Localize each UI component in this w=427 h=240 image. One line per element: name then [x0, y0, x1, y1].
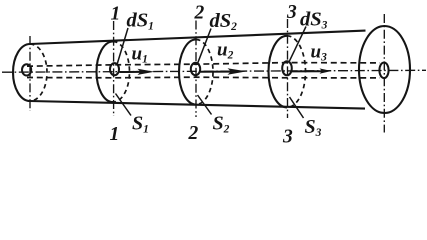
elementary area dS3 (small ellipse) — [282, 61, 292, 75]
right cap vertical dash-dot axis — [383, 14, 385, 133]
right elementary area (small ellipse) — [379, 63, 388, 79]
right end cap rim (full ellipse) — [359, 26, 410, 113]
velocity arrow u2 head — [228, 68, 247, 75]
velocity arrow u1 head — [138, 69, 155, 75]
section 1-1 visible arc (solid left half) — [97, 42, 114, 103]
section 3-3 visible arc (solid left half) — [269, 36, 287, 108]
svg-text:3: 3 — [282, 127, 293, 145]
velocity arrow u2 shaft — [201, 71, 232, 73]
svg-text:1: 1 — [111, 4, 121, 25]
svg-text:3: 3 — [286, 2, 297, 23]
section 1-1 hidden arc (dashed right half) — [113, 42, 130, 103]
axis centerline (horizontal dash-dot) — [2, 70, 426, 72]
velocity arrow u3 shaft — [292, 70, 322, 72]
elementary area dS2 (small ellipse) — [191, 63, 200, 75]
leader line to dS2 — [198, 29, 211, 63]
section 2-2 hidden arc (dashed right half) — [196, 40, 213, 105]
svg-text:2: 2 — [188, 123, 199, 144]
svg-text:1: 1 — [110, 124, 120, 144]
tube top outline — [30, 31, 366, 44]
tube bottom outline — [30, 101, 365, 109]
velocity arrow u1 shaft — [120, 71, 142, 73]
svg-text:2: 2 — [194, 3, 205, 24]
elementary stream tube top wall (dashed) — [27, 63, 380, 67]
leader line to dS3 — [289, 27, 306, 62]
left elementary area dS (small ellipse) — [22, 64, 31, 75]
section 2-2 vertical dash-dot axis — [195, 21, 197, 118]
leader line to S1 — [116, 94, 132, 116]
left end cap visible rim (solid left half) — [13, 44, 30, 101]
section 3-3 hidden arc (dashed right half) — [287, 36, 305, 108]
section 3-3 vertical dash-dot axis — [287, 19, 289, 118]
section 1-1 vertical dash-dot axis — [113, 21, 115, 116]
leader line to dS1 — [117, 28, 128, 64]
left end cap hidden rim (dashed right half) — [30, 44, 47, 101]
elementary area dS1 (small ellipse) — [110, 63, 119, 75]
left cap vertical dash-dot axis — [29, 36, 31, 111]
leader line to S3 — [290, 97, 304, 118]
leader line to S2 — [198, 95, 212, 115]
section 2-2 visible arc (solid left half) — [179, 40, 196, 105]
velocity arrow u3 head — [320, 68, 332, 73]
elementary stream tube bottom wall (dashed) — [27, 76, 380, 79]
